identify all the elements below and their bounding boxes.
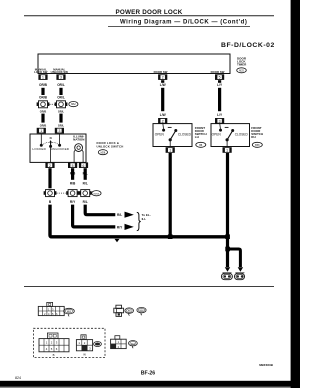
wire ground branch xyxy=(228,249,241,267)
svg-text:W: W xyxy=(83,352,86,356)
locked contact dot xyxy=(40,144,43,147)
wire door switch rh down xyxy=(226,153,229,267)
svg-text:3: 3 xyxy=(60,76,62,80)
svg-text:1: 1 xyxy=(46,341,48,345)
terminal 2 bottom of switch box xyxy=(45,162,54,168)
terminal 6 bottom of switch box xyxy=(79,162,88,168)
connector id oval B58 xyxy=(252,142,262,147)
connector M62 pair right xyxy=(55,101,68,108)
rh switch contact wire xyxy=(219,124,222,129)
terminal 2 door switch lh xyxy=(158,118,167,124)
unlocked contact dot xyxy=(58,144,61,147)
continuation arrow on bus xyxy=(115,239,120,242)
svg-text:OR/B: OR/B xyxy=(40,109,47,113)
svg-text:POWER DOOR LOCK: POWER DOOR LOCK xyxy=(115,9,182,16)
connector face M203 xyxy=(76,335,92,357)
connector oval id 1 xyxy=(125,308,134,316)
svg-text:L/Y: L/Y xyxy=(217,113,223,117)
connector face oval id M62 xyxy=(64,308,75,316)
svg-text:1: 1 xyxy=(169,149,171,153)
wire R/L upper xyxy=(84,168,87,180)
svg-text:CLOSED: CLOSED xyxy=(178,133,192,137)
svg-text:OR/L: OR/L xyxy=(58,123,65,127)
rh lever pivot dot xyxy=(226,138,229,141)
label DOOR LOCK TIMER xyxy=(237,57,247,67)
terminal 3 (manual unlock sw) xyxy=(56,74,65,80)
terminal 2 (door sw lh) xyxy=(158,74,167,80)
svg-text:1: 1 xyxy=(42,76,44,80)
svg-text:3: 3 xyxy=(219,119,221,123)
lh contact dash xyxy=(168,126,172,128)
svg-text:Wiring Diagram — D/LOCK — (Con: Wiring Diagram — D/LOCK — (Cont'd) xyxy=(120,19,247,25)
header rule xyxy=(24,15,274,17)
wire B upper xyxy=(48,168,51,188)
wire OR/B lower xyxy=(41,114,44,123)
rh closed contact dot xyxy=(231,129,234,132)
svg-text:M28: M28 xyxy=(101,151,106,154)
connector oval id 2 xyxy=(137,307,146,315)
junction ground branch xyxy=(225,247,230,252)
lh pivot wire xyxy=(169,140,171,147)
svg-text:ILL: ILL xyxy=(142,217,147,221)
wire OR/L lower xyxy=(59,114,62,123)
svg-text:B58: B58 xyxy=(140,310,145,312)
svg-text:3: 3 xyxy=(58,129,60,133)
svg-text:BF-D/LOCK-02: BF-D/LOCK-02 xyxy=(221,42,275,49)
svg-text:5: 5 xyxy=(219,76,221,80)
svg-text:5: 5 xyxy=(51,347,53,351)
connector R/L inline xyxy=(79,190,92,197)
illumination lamp xyxy=(74,144,83,162)
connector id oval M62 xyxy=(69,102,78,107)
terminal 5 (door sw rh) xyxy=(215,74,224,80)
switch contact wires xyxy=(41,134,59,144)
svg-text:OR/L: OR/L xyxy=(57,83,65,87)
svg-text:MBF363B: MBF363B xyxy=(259,363,274,367)
svg-text:OPEN: OPEN xyxy=(155,133,165,137)
connector id oval M203 xyxy=(92,191,101,196)
svg-text:DOOR SW: DOOR SW xyxy=(211,70,225,74)
label MANUAL UNLOCK SW xyxy=(51,68,69,75)
svg-text:DOOR SW: DOOR SW xyxy=(154,70,168,74)
svg-text:2: 2 xyxy=(51,341,53,345)
front door switch lh box xyxy=(153,124,192,147)
svg-text:3: 3 xyxy=(89,347,91,351)
label FRONT DOOR SWITCH RH xyxy=(251,126,263,139)
svg-text:LOCK SW: LOCK SW xyxy=(34,70,48,74)
svg-text:824: 824 xyxy=(15,376,21,380)
svg-text:CLOSED: CLOSED xyxy=(235,133,249,137)
separator rule xyxy=(24,286,274,288)
svg-text:M25: M25 xyxy=(239,69,244,72)
label MANUAL LOCK SW xyxy=(34,68,48,75)
svg-text:B8: B8 xyxy=(128,311,131,313)
svg-text:6: 6 xyxy=(56,347,58,351)
svg-text:RH: RH xyxy=(251,135,255,139)
brace to EL-ILL xyxy=(137,212,141,230)
body ground connector right xyxy=(235,273,245,280)
lh lever pivot dot xyxy=(169,138,172,141)
switch common wire xyxy=(50,148,52,162)
svg-text:OPEN: OPEN xyxy=(212,133,222,137)
connector id oval M28 xyxy=(98,150,107,155)
svg-text:3: 3 xyxy=(56,341,58,345)
dashed lever arcs xyxy=(43,142,58,144)
ground arrow right xyxy=(238,267,243,272)
wire L/W xyxy=(161,80,164,111)
svg-text:L/Y: L/Y xyxy=(217,83,223,87)
connector M62 pair left xyxy=(37,101,50,108)
svg-text:1: 1 xyxy=(78,341,80,345)
svg-text:N: N xyxy=(50,136,52,140)
door lock and unlock switch box xyxy=(30,134,86,162)
label To EL-ILL xyxy=(142,213,151,221)
svg-text:UNLOCK SWITCH: UNLOCK SWITCH xyxy=(97,144,124,148)
rh switch lever xyxy=(227,131,233,140)
terminal 1 top of switch box xyxy=(37,128,46,134)
front door switch rh box xyxy=(211,124,250,147)
svg-text:OR/L: OR/L xyxy=(57,96,65,100)
connector face M25 cross xyxy=(114,305,124,316)
connector face M28 xyxy=(39,333,69,357)
connector B inline xyxy=(44,190,57,197)
svg-text:1: 1 xyxy=(48,307,50,311)
dotted link lower connectors xyxy=(57,192,66,194)
terminal 1 (manual lock sw) xyxy=(38,74,47,80)
switch lever N xyxy=(49,140,52,148)
dashed group box xyxy=(33,328,105,357)
svg-text:4: 4 xyxy=(46,347,48,351)
svg-text:R/Y: R/Y xyxy=(70,200,76,204)
wire L/Y xyxy=(218,80,221,111)
svg-text:2: 2 xyxy=(49,164,51,168)
svg-text:B: B xyxy=(53,353,55,357)
wire door switch lh to bus xyxy=(169,153,172,235)
svg-text:2: 2 xyxy=(84,341,86,345)
terminal 1 door switch rh bottom xyxy=(223,147,232,153)
terminal 5 bottom of switch box xyxy=(68,162,77,168)
rh open contact dot xyxy=(219,129,222,132)
svg-text:OR/L: OR/L xyxy=(58,109,65,113)
arrow R/L xyxy=(125,212,134,218)
connector face M62 xyxy=(38,302,64,316)
lh open contact dot xyxy=(162,129,165,132)
svg-text:B8: B8 xyxy=(199,144,203,147)
svg-text:B58: B58 xyxy=(255,144,260,147)
svg-text:M62: M62 xyxy=(71,103,76,106)
svg-text:1: 1 xyxy=(40,129,42,133)
svg-text:2: 2 xyxy=(162,76,164,80)
svg-text:B: B xyxy=(49,200,52,204)
label DOOR LOCK UNLOCK SWITCH xyxy=(97,141,124,148)
connector R/Y inline xyxy=(66,190,79,197)
lh closed contact dot xyxy=(174,129,177,132)
terminal 1 door switch lh bottom xyxy=(166,147,175,153)
svg-text:1: 1 xyxy=(226,149,228,153)
svg-text:OR/B: OR/B xyxy=(39,96,48,100)
door lock timer box xyxy=(38,54,230,74)
svg-text:R/B: R/B xyxy=(70,181,76,185)
svg-text:M203: M203 xyxy=(94,193,100,195)
svg-text:UNLOCKED: UNLOCKED xyxy=(51,147,70,151)
svg-text:R/Y: R/Y xyxy=(117,225,123,229)
svg-text:2: 2 xyxy=(162,119,164,123)
svg-text:LOCKED: LOCKED xyxy=(32,147,46,151)
lh switch contact wire xyxy=(162,124,165,129)
arrow R/Y xyxy=(125,224,134,230)
ground arrow left xyxy=(225,267,230,272)
svg-text:BF-26: BF-26 xyxy=(141,370,156,376)
wire R/L run to EL-ILL xyxy=(85,205,115,215)
label FRONT DOOR SWITCH LH xyxy=(195,126,207,139)
junction lh switch to bus xyxy=(168,234,173,239)
subtitle underline xyxy=(108,25,250,27)
svg-text:LH: LH xyxy=(195,135,199,139)
svg-text:L/W: L/W xyxy=(160,83,166,87)
svg-text:3: 3 xyxy=(52,307,54,311)
terminal 3 top of switch box xyxy=(55,128,64,134)
wire OR/B upper xyxy=(41,88,44,95)
svg-text:OR/B: OR/B xyxy=(39,83,48,87)
rh contact dash xyxy=(225,126,229,128)
right black band xyxy=(291,0,300,388)
lh switch lever xyxy=(170,131,176,140)
rh pivot wire xyxy=(226,140,228,147)
svg-text:UNLOCK SW: UNLOCK SW xyxy=(51,70,69,74)
svg-text:NATION: NATION xyxy=(73,137,84,141)
wire B ground bus xyxy=(50,205,229,237)
terminal 3 door switch rh xyxy=(215,118,224,124)
dotted link between connectors xyxy=(50,103,55,105)
wire OR/L upper xyxy=(59,88,62,95)
svg-text:R/L: R/L xyxy=(117,213,122,217)
label ILLUMINATION xyxy=(73,134,84,141)
svg-text:TIMER: TIMER xyxy=(237,63,247,67)
bottom black bar xyxy=(0,381,300,387)
svg-text:OR/B: OR/B xyxy=(40,123,47,127)
svg-text:R/L: R/L xyxy=(83,200,88,204)
svg-text:6: 6 xyxy=(83,164,85,168)
junction rh switch to bus xyxy=(225,234,230,239)
connector id oval B8 xyxy=(196,142,206,147)
svg-text:L/W: L/W xyxy=(160,113,166,117)
body ground connector left xyxy=(221,273,232,280)
wire R/B upper xyxy=(71,168,74,180)
svg-text:5: 5 xyxy=(72,164,74,168)
connector face body ground xyxy=(111,336,127,349)
svg-text:R/L: R/L xyxy=(83,181,88,185)
connector oval id body ground xyxy=(129,341,138,349)
connector oval id M203 xyxy=(94,342,102,347)
wire R/Y run to EL-ILL xyxy=(73,205,116,227)
connector id oval M25 xyxy=(237,68,247,73)
svg-text:B13: B13 xyxy=(131,343,136,345)
